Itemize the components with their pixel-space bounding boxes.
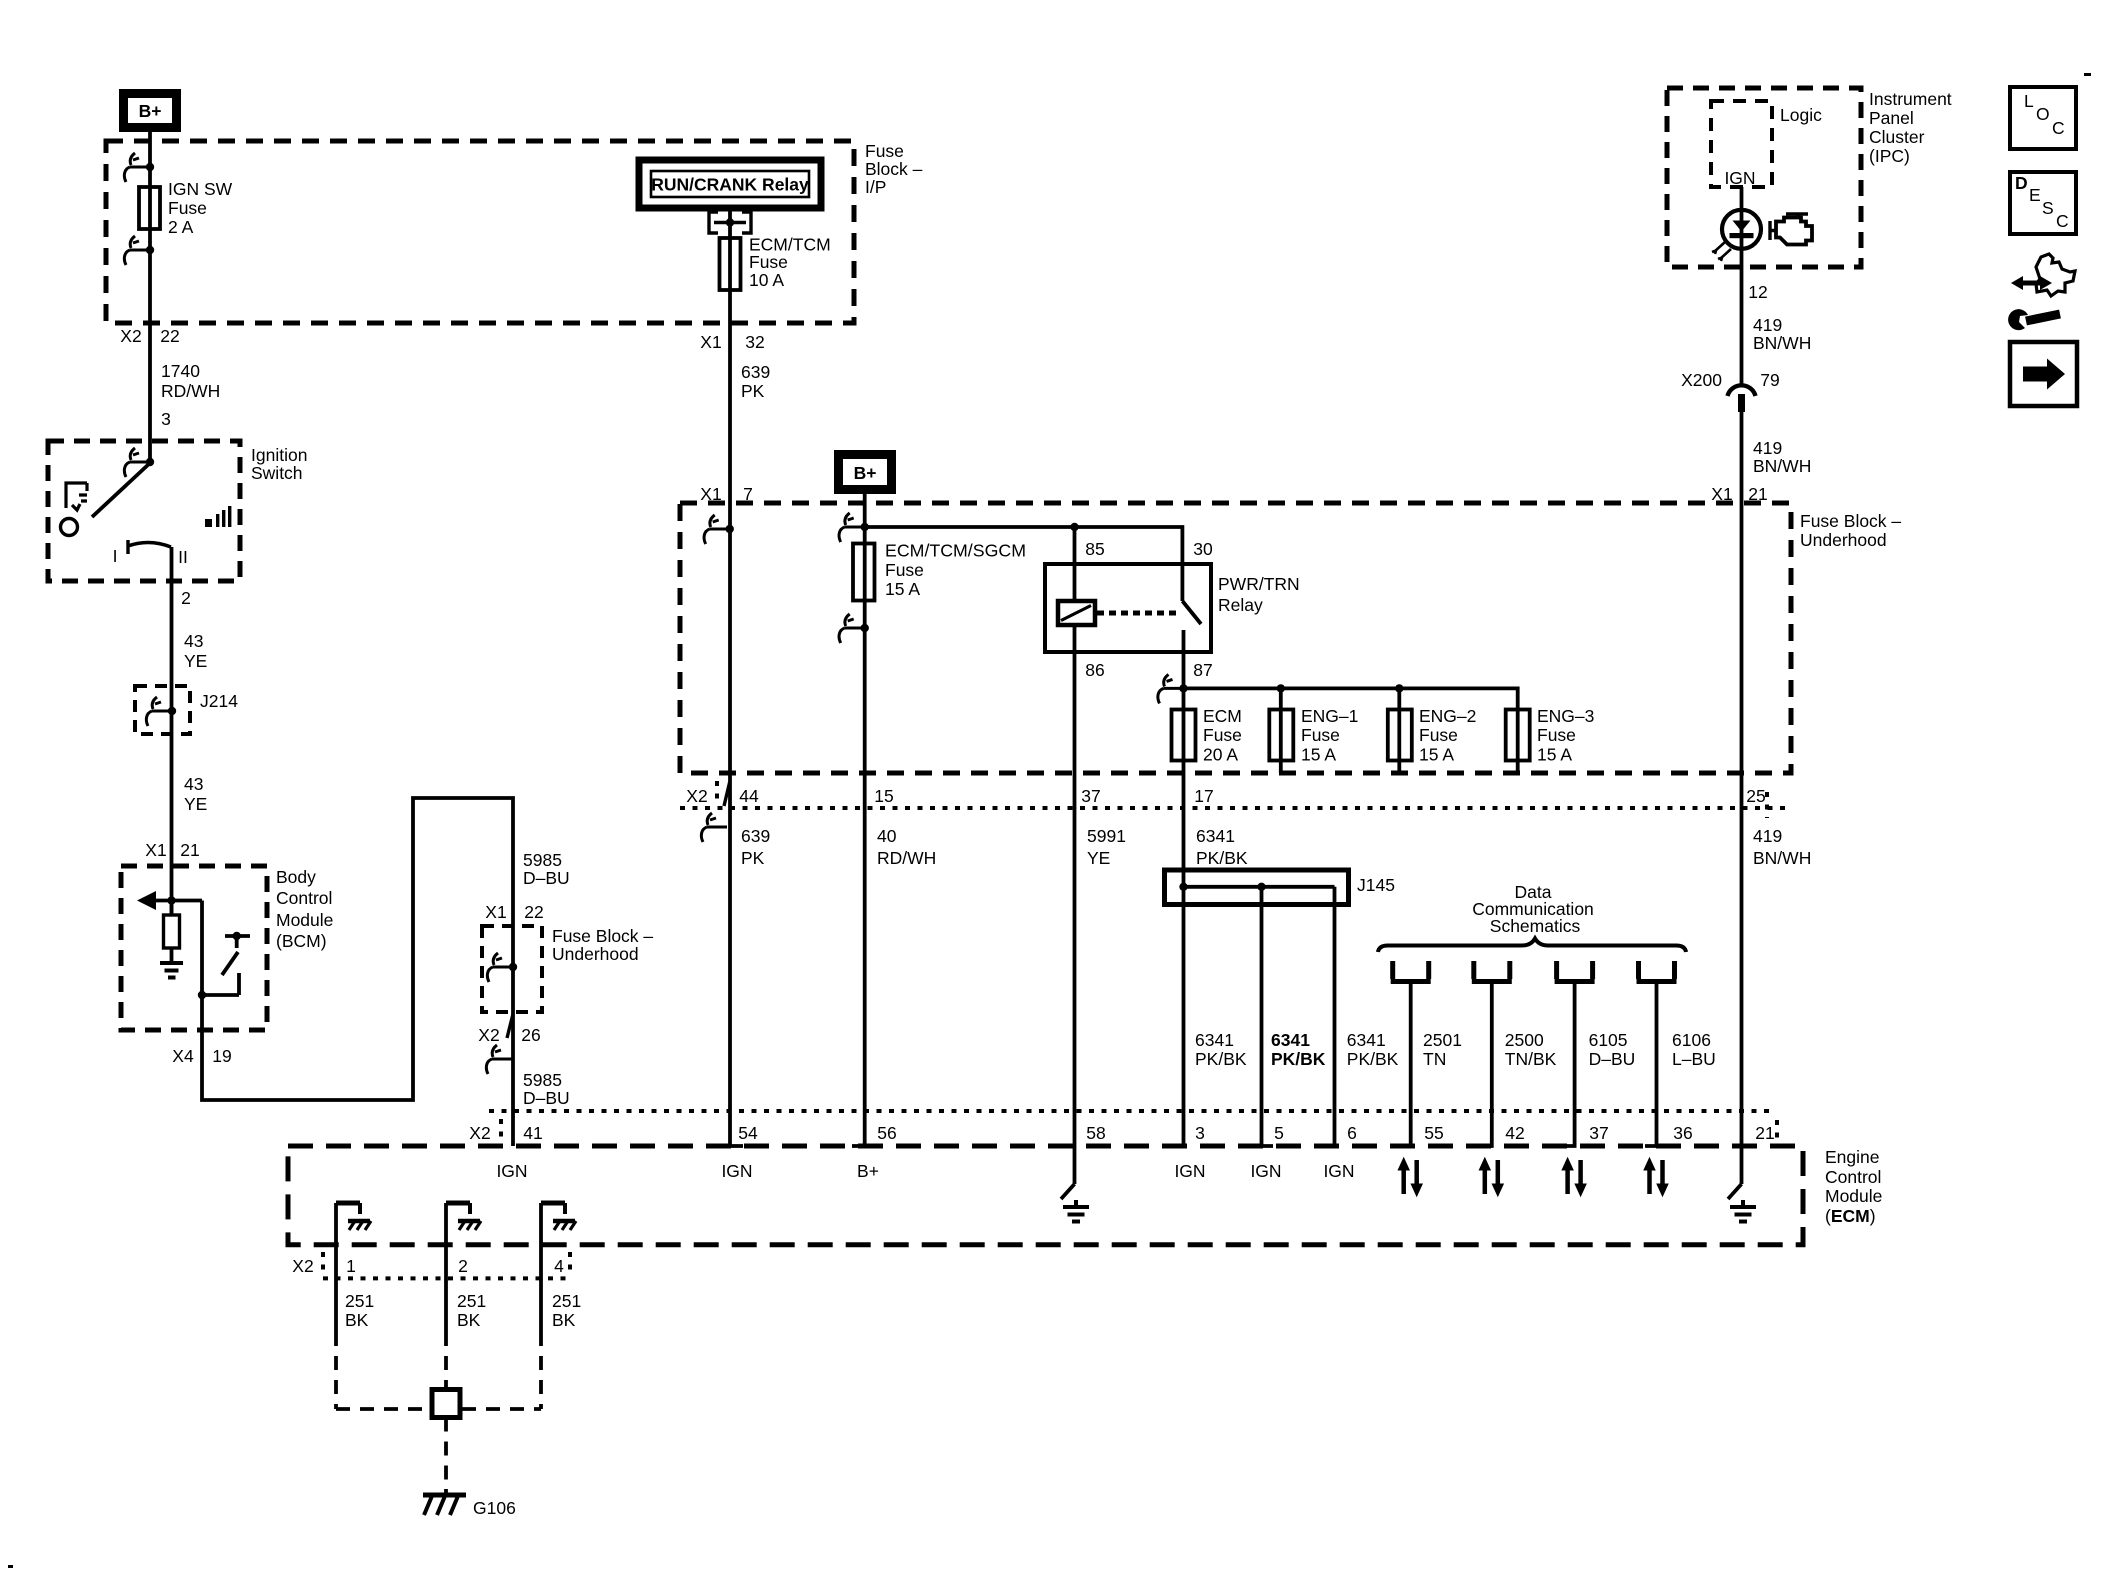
svg-text:2501: 2501 [1423, 1030, 1462, 1050]
svg-text:12: 12 [1748, 282, 1767, 302]
svg-text:BK: BK [345, 1310, 369, 1330]
label IGN SW Fuse 2 A [168, 179, 233, 237]
svg-text:Underhood: Underhood [1800, 530, 1887, 550]
wire BCM output X4-19 [202, 798, 513, 1146]
bidirectional arrows pin 37 [1562, 1158, 1586, 1196]
wire relay 87 down through ECM fuse, J145 to ECM pin 3 [1182, 630, 1186, 1146]
position III bars icon [205, 506, 231, 527]
svg-text:(BCM): (BCM) [276, 931, 327, 951]
svg-text:BK: BK [552, 1310, 576, 1330]
terminal clip below IGN SW fuse [124, 236, 154, 265]
svg-text:L: L [2024, 91, 2034, 111]
dotted tick right of pin 4 [568, 1252, 572, 1274]
svg-text:Fuse: Fuse [1419, 725, 1458, 745]
svg-text:2500: 2500 [1505, 1030, 1544, 1050]
svg-text:C: C [2056, 211, 2069, 231]
label X200 | 79 [1681, 370, 1780, 390]
svg-text:(ECM): (ECM) [1825, 1206, 1876, 1226]
wire label 419 BN/WH (lower) [1753, 826, 1811, 868]
svg-text:X1: X1 [1711, 484, 1732, 504]
junction node ENG-2 [1395, 684, 1403, 692]
svg-text:251: 251 [457, 1291, 486, 1311]
inline connector X200 [1728, 385, 1756, 412]
wire label 419 BN/WH (upper) [1753, 315, 1811, 353]
Fuse Block - I/P dashed box [106, 141, 854, 323]
Instrument Panel Cluster dashed box [1667, 88, 1861, 267]
svg-text:56: 56 [877, 1123, 896, 1143]
wire drop ENG-1 [1279, 688, 1283, 773]
svg-text:30: 30 [1193, 539, 1213, 559]
dotted tick left of pin 1 [321, 1252, 325, 1274]
svg-text:(IPC): (IPC) [1869, 146, 1910, 166]
ignition switch wiper arm [92, 463, 150, 517]
dashed wire to G106 [444, 1418, 448, 1490]
dashed ground wire right [539, 1332, 543, 1409]
svg-text:IGN: IGN [1250, 1161, 1281, 1181]
svg-text:Control: Control [276, 888, 332, 908]
terminal clip above IGN SW fuse [124, 153, 154, 182]
svg-text:ECM/TCM/SGCM: ECM/TCM/SGCM [885, 541, 1026, 561]
svg-text:Fuse: Fuse [1537, 725, 1576, 745]
svg-text:B+: B+ [857, 1161, 879, 1181]
svg-text:Relay: Relay [1218, 595, 1263, 615]
svg-text:251: 251 [552, 1291, 581, 1311]
wire label 251 BK (pin 4) [552, 1291, 581, 1330]
Engine Control Module dashed box [288, 1146, 1803, 1245]
label Engine Control Module (ECM) [1825, 1147, 1882, 1226]
junction node ENG-1 [1277, 684, 1285, 692]
svg-text:41: 41 [523, 1123, 542, 1143]
wire label 6106 L-BU [1672, 1030, 1716, 1069]
svg-text:19: 19 [212, 1046, 231, 1066]
svg-text:36: 36 [1673, 1123, 1692, 1143]
bidirectional arrows pin 42 [1479, 1158, 1503, 1196]
svg-text:15: 15 [874, 786, 893, 806]
svg-text:419: 419 [1753, 826, 1782, 846]
svg-text:15 A: 15 A [1419, 745, 1454, 765]
icon forward arrow box [2010, 342, 2077, 406]
svg-text:ENG–2: ENG–2 [1419, 706, 1476, 726]
svg-text:2: 2 [458, 1256, 468, 1276]
relay PWR/TRN box [1045, 564, 1211, 652]
label ECM/TCM Fuse 10 A [749, 235, 831, 291]
label Fuse Block - Underhood (small box) [552, 926, 653, 964]
fuse ECM 20A [1172, 710, 1196, 761]
svg-text:15 A: 15 A [885, 579, 920, 599]
svg-text:44: 44 [739, 786, 759, 806]
svg-text:Block –: Block – [865, 159, 923, 179]
pin label X2 | 26 [478, 1025, 540, 1045]
power symbol B+ (battery feed, top left) [119, 89, 181, 132]
wire relay coil 85 to 86 down to ECM pin 58 [1073, 527, 1077, 1184]
svg-text:D–BU: D–BU [523, 1088, 570, 1108]
svg-text:J214: J214 [200, 691, 238, 711]
page artifact marks [2084, 73, 2091, 76]
dotted connector face line under fuse block [680, 806, 1791, 810]
svg-text:J145: J145 [1357, 875, 1395, 895]
key symbol [66, 483, 87, 510]
fuse ENG-3 15A [1506, 710, 1530, 761]
wire bus B+ feed to relay [865, 527, 1183, 564]
svg-text:PK: PK [741, 848, 765, 868]
bidirectional arrows pin 55 [1398, 1158, 1422, 1196]
pin 56 foot [852, 1144, 865, 1148]
svg-text:Fuse: Fuse [1301, 725, 1340, 745]
svg-text:S: S [2042, 198, 2054, 218]
svg-text:15 A: 15 A [1537, 745, 1572, 765]
ECM internal ground wire 2 [446, 1203, 481, 1332]
svg-text:BN/WH: BN/WH [1753, 333, 1811, 353]
wire label 2501 TN [1423, 1030, 1462, 1069]
Fuse Block - Underhood main dashed box [680, 503, 1791, 773]
svg-text:G106: G106 [473, 1498, 516, 1518]
svg-text:3: 3 [161, 409, 171, 429]
connector kink and clip at X2-44 [701, 782, 729, 842]
svg-text:Fuse: Fuse [749, 252, 788, 272]
svg-text:X2: X2 [686, 786, 707, 806]
svg-text:6341: 6341 [1347, 1030, 1386, 1050]
svg-text:Panel: Panel [1869, 108, 1914, 128]
svg-text:6105: 6105 [1589, 1030, 1628, 1050]
svg-text:251: 251 [345, 1291, 374, 1311]
svg-text:21: 21 [1755, 1123, 1774, 1143]
label Instrument Panel Cluster (IPC) [1869, 89, 1952, 166]
svg-text:BK: BK [457, 1310, 481, 1330]
svg-text:Control: Control [1825, 1167, 1881, 1187]
fuse ECM/TCM 10A [720, 238, 741, 290]
svg-text:85: 85 [1085, 539, 1104, 559]
svg-text:86: 86 [1085, 660, 1104, 680]
wire label 2500 TN/BK [1505, 1030, 1557, 1069]
svg-text:B+: B+ [139, 101, 162, 121]
svg-text:C: C [2052, 118, 2065, 138]
svg-text:1: 1 [346, 1256, 356, 1276]
svg-text:Fuse: Fuse [865, 141, 904, 161]
svg-text:IGN: IGN [1323, 1161, 1354, 1181]
svg-text:D: D [2015, 173, 2028, 193]
wire label 639 PK (lower) [741, 826, 770, 868]
ground inside BCM [160, 963, 183, 978]
pin label X2 | 22 [120, 326, 179, 346]
key ring circle [61, 519, 78, 536]
svg-text:Fuse: Fuse [885, 560, 924, 580]
dashed ground wire left [334, 1332, 338, 1409]
svg-text:6341: 6341 [1196, 826, 1235, 846]
fuse ECM/TCM/SGCM 15A [853, 544, 875, 601]
wire IGN logic to indicator [1740, 187, 1744, 384]
connector stub serial data 4 [1637, 961, 1677, 1146]
svg-text:1740: 1740 [161, 361, 200, 381]
dotted connector face line ECM top [489, 1109, 1776, 1113]
icon box DESC [2010, 172, 2076, 234]
pin label X1 | 21 [145, 840, 199, 860]
svg-text:6106: 6106 [1672, 1030, 1711, 1050]
dotted tick at X2-44 [715, 781, 719, 804]
svg-text:Fuse Block –: Fuse Block – [1800, 511, 1901, 531]
svg-text:6341: 6341 [1195, 1030, 1234, 1050]
dotted tick at X2-41 [499, 1119, 503, 1142]
wire label 1740 RD/WH [161, 361, 220, 401]
svg-text:PK/BK: PK/BK [1195, 1049, 1247, 1069]
ground G106 [423, 1489, 466, 1515]
svg-text:X1: X1 [145, 840, 166, 860]
svg-text:ECM: ECM [1203, 706, 1242, 726]
wire label 5985 D-BU (lower) [523, 1070, 570, 1108]
relay coil [1058, 601, 1095, 625]
svg-text:639: 639 [741, 362, 770, 382]
svg-text:X4: X4 [172, 1046, 194, 1066]
icon box LOC [2010, 87, 2076, 149]
pin 3 foot [1172, 1144, 1184, 1148]
svg-text:87: 87 [1193, 660, 1212, 680]
svg-text:25: 25 [1746, 786, 1765, 806]
resistor inside BCM [164, 901, 180, 964]
svg-text:I: I [113, 546, 118, 566]
svg-text:IGN: IGN [1724, 168, 1755, 188]
label PWR/TRN Relay [1218, 574, 1300, 615]
svg-text:E: E [2029, 185, 2041, 205]
svg-text:22: 22 [160, 326, 179, 346]
junction node J145 pin5 wire [1257, 883, 1265, 891]
svg-text:IGN: IGN [721, 1161, 752, 1181]
LED triangle and bar [1730, 221, 1754, 239]
terminal clip on 639 wire inside fuse block underhood [704, 515, 734, 544]
bidirectional arrows pin 36 [1644, 1158, 1668, 1196]
dashed ground wire middle [444, 1332, 448, 1389]
svg-text:Logic: Logic [1780, 105, 1822, 125]
svg-text:3: 3 [1195, 1123, 1205, 1143]
svg-text:419: 419 [1753, 315, 1782, 335]
BCM internal switch [198, 901, 250, 1000]
brace over data links [1378, 939, 1686, 953]
fuse IGN SW 2A [139, 187, 160, 229]
svg-text:Fuse: Fuse [168, 198, 207, 218]
Ignition Switch dashed box [48, 441, 240, 581]
svg-text:5985: 5985 [523, 850, 562, 870]
BCM driver arrow (output) [137, 891, 202, 910]
svg-text:IGN: IGN [496, 1161, 527, 1181]
splice J214 dashed box [135, 686, 190, 734]
pin label X2 | 1 [292, 1256, 356, 1276]
junction node J145 pin3 wire [1179, 883, 1187, 891]
svg-text:IGN: IGN [1174, 1161, 1205, 1181]
dotted tick at 21 [1775, 1120, 1779, 1143]
svg-text:TN/BK: TN/BK [1505, 1049, 1557, 1069]
wire label 43 YE (lower) [184, 774, 207, 814]
connector stub serial data 1 [1391, 961, 1431, 1146]
svg-text:40: 40 [877, 826, 897, 846]
svg-text:37: 37 [1081, 786, 1100, 806]
svg-text:5: 5 [1274, 1123, 1284, 1143]
svg-text:21: 21 [180, 840, 199, 860]
svg-text:2 A: 2 A [168, 217, 194, 237]
svg-text:Cluster: Cluster [1869, 127, 1925, 147]
wire drop ENG-2 [1397, 688, 1401, 773]
svg-text:43: 43 [184, 631, 203, 651]
svg-text:79: 79 [1760, 370, 1779, 390]
wire label 5985 D-BU [523, 850, 570, 888]
svg-text:BN/WH: BN/WH [1753, 456, 1811, 476]
label Body Control Module (BCM) [276, 867, 333, 951]
svg-text:Module: Module [1825, 1186, 1882, 1206]
fuse ENG-2 15A [1388, 710, 1412, 761]
wire label 419 BN/WH (middle) [1753, 438, 1811, 476]
wire label 6341 PK/BK (pin 6) [1347, 1030, 1399, 1069]
pin label X1 | 22 [485, 902, 543, 922]
IPC logic inner dashed box [1711, 101, 1772, 187]
svg-text:Module: Module [276, 910, 333, 930]
svg-text:58: 58 [1086, 1123, 1105, 1143]
svg-text:ENG–3: ENG–3 [1537, 706, 1594, 726]
label ENG-2 Fuse 15 A [1419, 706, 1476, 765]
wire label 251 BK (pin 2) [457, 1291, 486, 1330]
svg-text:639: 639 [741, 826, 770, 846]
label ENG-3 Fuse 15 A [1537, 706, 1594, 765]
svg-text:2: 2 [181, 588, 191, 608]
indicator LED circle [1722, 210, 1761, 249]
icon wrench [2008, 309, 2060, 330]
ECM internal ground wire 1 [336, 1203, 371, 1332]
svg-text:D–BU: D–BU [523, 868, 570, 888]
wire label 6341 PK/BK (pin 5) [1271, 1030, 1326, 1069]
label ENG-1 Fuse 15 A [1301, 706, 1358, 765]
connector kink and clip below X2-26 [486, 1014, 513, 1074]
svg-text:RUN/CRANK Relay: RUN/CRANK Relay [651, 175, 809, 195]
svg-text:X1: X1 [700, 332, 721, 352]
wire bus 87 to ENG fuses [1184, 688, 1518, 709]
label Data Communication Schematics [1472, 882, 1594, 936]
dashed ground bus bottom [336, 1407, 541, 1411]
splice square [432, 1390, 460, 1418]
wire label 5991 YE [1087, 826, 1126, 868]
Body Control Module dashed box [121, 866, 267, 1030]
wire RUN/CRANK relay output down to ECM pin 54 [728, 208, 732, 1146]
LED emission arrows [1712, 242, 1731, 261]
wire drop ENG-3 [1516, 709, 1520, 773]
connector stub serial data 2 [1472, 961, 1512, 1146]
svg-text:4: 4 [554, 1256, 564, 1276]
svg-text:26: 26 [521, 1025, 540, 1045]
svg-text:10 A: 10 A [749, 270, 784, 290]
svg-text:Ignition: Ignition [251, 445, 307, 465]
svg-text:X2: X2 [292, 1256, 313, 1276]
pin label X1 | 21 (fuse block underhood) [1711, 484, 1767, 504]
svg-text:X200: X200 [1681, 370, 1722, 390]
power symbol B+ (fuse block underhood) [834, 450, 896, 494]
svg-text:Body: Body [276, 867, 316, 887]
wire ignition switch II output down to BCM [170, 547, 174, 915]
svg-text:Fuse: Fuse [1203, 725, 1242, 745]
svg-text:43: 43 [184, 774, 203, 794]
terminal clip below ECM/TCM/SGCM fuse [839, 614, 869, 643]
relay dashed actuation link [1097, 611, 1178, 616]
pin label X4 | 19 [172, 1046, 231, 1066]
ECM internal ground wire 3 [541, 1203, 576, 1332]
wire X200 to ECM pin 21 [1740, 408, 1744, 1184]
svg-text:X2: X2 [469, 1123, 490, 1143]
svg-text:B+: B+ [854, 463, 877, 483]
svg-text:419: 419 [1753, 438, 1782, 458]
svg-text:5985: 5985 [523, 1070, 562, 1090]
contact arc between I and II [128, 540, 171, 554]
svg-text:42: 42 [1505, 1123, 1524, 1143]
ground inside ECM at pin 21 [1728, 1184, 1756, 1222]
label ECM Fuse 20 A [1203, 706, 1242, 765]
svg-text:20 A: 20 A [1203, 745, 1238, 765]
wire B+ down through ECM/TCM/SGCM fuse to ECM pin 56 [863, 494, 867, 1146]
terminal clip at B+ junction [839, 513, 869, 542]
pin 54 foot [730, 1144, 743, 1148]
svg-text:YE: YE [184, 794, 207, 814]
connector stub serial data 3 [1555, 961, 1595, 1146]
terminal clip at 87 fuse bus [1158, 674, 1188, 703]
svg-text:55: 55 [1424, 1123, 1443, 1143]
svg-text:Schematics: Schematics [1490, 916, 1581, 936]
terminal clip inside small fuse block [487, 953, 517, 982]
svg-text:RD/WH: RD/WH [877, 848, 936, 868]
svg-text:X2: X2 [120, 326, 141, 346]
svg-text:PK/BK: PK/BK [1347, 1049, 1399, 1069]
svg-text:ENG–1: ENG–1 [1301, 706, 1358, 726]
relay RUN/CRANK label box [639, 160, 821, 208]
svg-text:I/P: I/P [865, 177, 886, 197]
svg-text:6341: 6341 [1271, 1030, 1310, 1050]
label Fuse Block - I/P [865, 141, 923, 197]
svg-text:Fuse Block –: Fuse Block – [552, 926, 653, 946]
svg-text:II: II [178, 547, 188, 567]
splice block J145 [1165, 870, 1349, 905]
icon vehicle view with arrow [2011, 254, 2075, 296]
svg-text:17: 17 [1194, 786, 1213, 806]
svg-text:Underhood: Underhood [552, 944, 639, 964]
svg-text:IGN SW: IGN SW [168, 179, 233, 199]
svg-text:6: 6 [1347, 1123, 1357, 1143]
svg-text:PWR/TRN: PWR/TRN [1218, 574, 1300, 594]
wire label 251 BK (pin 1) [345, 1291, 374, 1330]
svg-text:32: 32 [745, 332, 764, 352]
dotted connector face line grounds [323, 1276, 570, 1280]
wire label 6105 D-BU [1589, 1030, 1636, 1069]
pin label X1 | 32 [700, 332, 764, 352]
svg-text:X2: X2 [478, 1025, 499, 1045]
svg-text:Engine: Engine [1825, 1147, 1880, 1167]
Fuse Block - Underhood small dashed box [482, 926, 542, 1012]
bracket connector below relay [709, 212, 751, 233]
ground inside ECM at pin 58 [1061, 1184, 1089, 1222]
svg-text:RD/WH: RD/WH [161, 381, 220, 401]
svg-text:YE: YE [1087, 848, 1110, 868]
svg-text:O: O [2036, 104, 2050, 124]
svg-text:54: 54 [738, 1123, 758, 1143]
svg-text:D–BU: D–BU [1589, 1049, 1636, 1069]
svg-text:5991: 5991 [1087, 826, 1126, 846]
label Ignition Switch [251, 445, 307, 483]
svg-text:Instrument: Instrument [1869, 89, 1952, 109]
wire label 43 YE [184, 631, 207, 671]
dotted tick at 25 [1765, 792, 1769, 818]
terminal clip at ignition switch input [124, 448, 154, 477]
svg-text:BN/WH: BN/WH [1753, 848, 1811, 868]
wire label 6341 PK/BK (pin 3) [1195, 1030, 1247, 1069]
fuse ENG-1 15A [1269, 710, 1293, 761]
terminal clip at J214 [146, 697, 176, 726]
junction node coil feed [1070, 523, 1078, 531]
svg-text:X1: X1 [485, 902, 506, 922]
label Fuse Block - Underhood (right) [1800, 511, 1901, 550]
wire label 6341 PK/BK [1196, 826, 1248, 868]
pin label X2 | 41 [469, 1123, 542, 1143]
svg-text:22: 22 [524, 902, 543, 922]
